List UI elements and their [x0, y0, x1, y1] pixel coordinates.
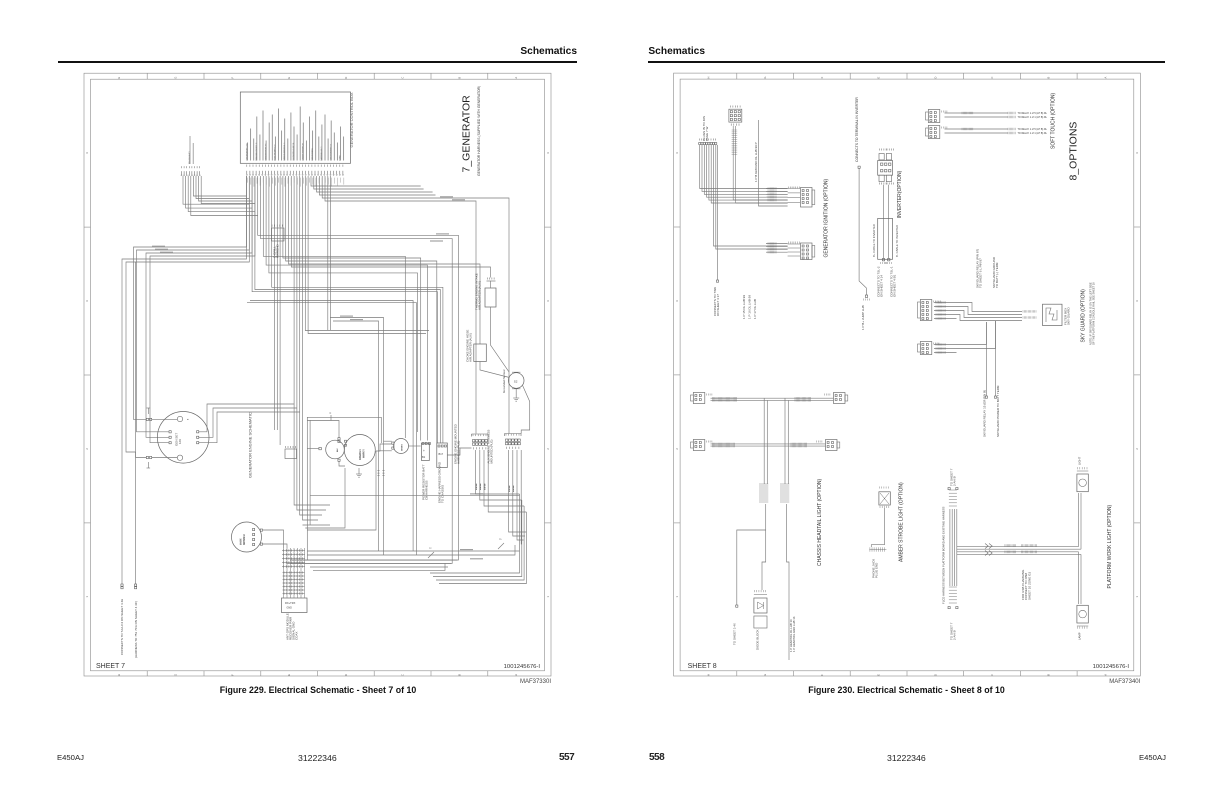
wire	[126, 176, 249, 452]
wire	[137, 176, 250, 432]
choke motor M2	[392, 439, 409, 454]
wire	[957, 551, 1079, 553]
battery cable block	[872, 218, 899, 259]
wire	[447, 448, 471, 455]
wire	[711, 397, 834, 399]
wire	[330, 176, 332, 330]
svg-text:4: 4	[1135, 152, 1139, 154]
wire	[702, 145, 788, 191]
wire	[309, 420, 311, 525]
wire	[263, 544, 288, 548]
wire	[934, 314, 957, 316]
wire	[287, 562, 451, 564]
wire	[289, 176, 481, 344]
svg-text:CHASSIS HEADTAIL LIGHT (OPTION: CHASSIS HEADTAIL LIGHT (OPTION)	[817, 479, 823, 566]
wire	[308, 176, 426, 334]
svg-text:B17: B17	[439, 452, 444, 456]
svg-text:H: H	[707, 674, 711, 676]
svg-text:TO SHEET 6 L PIN 87: TO SHEET 6 L PIN 87	[978, 258, 982, 288]
wire	[957, 311, 1023, 318]
connector ladder C9	[282, 549, 305, 595]
hatch	[1007, 116, 1009, 118]
wire	[436, 506, 524, 580]
node C	[330, 412, 332, 421]
wire	[716, 145, 788, 249]
svg-text:SKY GUARD (OPTION): SKY GUARD (OPTION)	[1080, 289, 1086, 343]
wire	[305, 468, 345, 528]
antenna LX100	[232, 522, 263, 552]
platform connector stack top	[948, 488, 958, 507]
wire	[305, 176, 429, 331]
wire	[934, 306, 957, 308]
wire	[934, 352, 957, 354]
svg-text:ON SHEET 4 14: ON SHEET 4 14	[880, 275, 884, 297]
svg-text:1: 1	[188, 418, 190, 420]
wire	[1080, 554, 1082, 604]
receiver box RX	[282, 598, 308, 640]
svg-text:ON SHEET 4 17: ON SHEET 4 17	[716, 294, 720, 316]
wire	[307, 421, 340, 443]
relay K2	[437, 443, 448, 503]
wire	[274, 176, 276, 430]
wire	[957, 553, 1081, 555]
svg-text:Grounded Sensor: Grounded Sensor	[502, 369, 506, 393]
wire	[134, 176, 247, 419]
wire	[957, 322, 987, 345]
connector P40 row (plugs in to 40S)	[699, 116, 717, 145]
wire	[711, 445, 826, 447]
svg-text:DIODE BLOCK: DIODE BLOCK	[756, 629, 760, 650]
platform connector stack bottom	[948, 587, 958, 609]
wire	[704, 145, 787, 194]
wire	[250, 301, 413, 552]
work lamp bottom	[1077, 605, 1088, 640]
wire	[488, 450, 526, 512]
svg-text:GENERATOR HARNESS (SUPPLIED WI: GENERATOR HARNESS (SUPPLIED WITH GENERAT…	[477, 86, 481, 176]
svg-text:PLUGS IN TO: PLUGS IN TO	[189, 151, 191, 164]
svg-text:C: C	[990, 674, 994, 676]
svg-text:ON SHEET 4 B1: ON SHEET 4 B1	[893, 274, 897, 297]
wire	[290, 548, 292, 598]
label to sheet 7 bottom	[950, 622, 957, 640]
label usb charging	[1021, 569, 1031, 600]
wire down to batt	[994, 321, 1000, 437]
svg-text:MANUAL CHOKE S: MANUAL CHOKE S	[255, 142, 258, 160]
svg-text:G: G	[174, 77, 178, 79]
svg-text:1 P 15 DL LHB 99: 1 P 15 DL LHB 99	[742, 295, 746, 319]
svg-text:RX+TRX: RX+TRX	[285, 601, 296, 605]
svg-text:CONNECTS TO TERMINAL IN INVERT: CONNECTS TO TERMINAL IN INVERTER	[855, 97, 859, 162]
wire	[199, 176, 253, 201]
hatch cluster	[1022, 310, 1024, 312]
wire	[934, 344, 957, 346]
wire	[954, 509, 956, 586]
generator control box U1	[240, 92, 354, 163]
wire	[199, 412, 300, 443]
head lamp connector row 1 right	[825, 393, 848, 404]
svg-text:AMBER STROBE LIGHT (OPTION): AMBER STROBE LIGHT (OPTION)	[899, 482, 905, 562]
svg-text:D: D	[933, 77, 937, 79]
wire	[263, 530, 284, 548]
wire	[766, 400, 768, 484]
wire to sheet 4	[120, 460, 124, 655]
wire	[325, 176, 476, 434]
inverter connector X3	[878, 149, 894, 185]
wire	[201, 176, 255, 204]
sky guard connector B2	[918, 342, 939, 355]
svg-text:C: C	[330, 412, 332, 415]
svg-text:SENDER FUEL PU: SENDER FUEL PU	[265, 143, 267, 161]
wire	[934, 302, 957, 304]
wire	[297, 548, 299, 598]
wire	[310, 494, 520, 496]
svg-text:H: H	[117, 77, 121, 79]
wire	[300, 176, 322, 515]
wire	[951, 509, 953, 586]
connector X2 grid box	[729, 106, 742, 126]
wire	[513, 450, 525, 536]
wire	[283, 548, 285, 598]
svg-text:TO BATT (-) TERM: TO BATT (-) TERM	[995, 262, 999, 288]
wire	[293, 548, 295, 598]
svg-text:B: B	[1047, 76, 1051, 78]
splice diamonds	[985, 544, 992, 556]
wire	[509, 450, 527, 532]
svg-text:G: G	[763, 77, 767, 79]
wire	[297, 176, 326, 510]
diode box	[754, 590, 767, 650]
wire	[787, 504, 789, 660]
wire	[711, 443, 826, 445]
wire connects to terminal in inverter	[855, 97, 869, 330]
wire	[956, 509, 958, 586]
svg-text:GEN RUNNING SI: GEN RUNNING SI	[330, 143, 332, 160]
wire number labels under pin row	[248, 178, 344, 187]
svg-text:8_OPTIONS: 8_OPTIONS	[1068, 122, 1080, 181]
wire	[957, 321, 996, 349]
svg-text:1: 1	[1135, 596, 1139, 598]
svg-text:4: 4	[85, 152, 89, 154]
wire	[307, 550, 520, 552]
svg-text:G: G	[763, 674, 767, 676]
wire	[193, 176, 246, 196]
wire	[272, 176, 443, 443]
svg-text:PAGE 7 W: PAGE 7 W	[705, 127, 709, 141]
connector to sheet 4 (2)	[886, 259, 897, 298]
wire	[327, 176, 329, 330]
svg-text:4: 4	[675, 152, 679, 154]
headlight connector A2	[766, 242, 815, 260]
filter box sky guard	[1043, 304, 1071, 325]
svg-text:GENERATOR IGNITION (OPTION): GENERATOR IGNITION (OPTION)	[824, 178, 830, 257]
svg-text:COAX: COAX	[295, 631, 299, 640]
svg-text:SKYGUARD POWER TO BATT TERM: SKYGUARD POWER TO BATT TERM	[996, 385, 1000, 437]
soft touch connector S1	[926, 110, 947, 123]
wire	[186, 176, 253, 208]
svg-text:CB HARNESS: CB HARNESS	[425, 480, 429, 500]
wire	[196, 176, 249, 199]
svg-text:B- CABLE TO INVERTER: B- CABLE TO INVERTER	[895, 225, 899, 257]
svg-text:C: C	[401, 674, 405, 676]
svg-text:LAMP: LAMP	[1078, 632, 1082, 640]
svg-text:2-4 16: 2-4 16	[480, 483, 482, 490]
wire	[957, 303, 1023, 312]
svg-text:3: 3	[85, 300, 89, 302]
svg-text:12V: 12V	[178, 439, 182, 444]
terminal strip TB1	[454, 423, 489, 464]
svg-text:1-4 16: 1-4 16	[476, 483, 478, 490]
wire	[338, 459, 345, 466]
svg-text:BATTERY CHG: BATTERY CHG	[320, 146, 323, 160]
wire	[247, 303, 417, 555]
svg-text:1: 1	[85, 596, 89, 598]
wire	[957, 546, 1079, 548]
wire	[314, 176, 424, 189]
svg-text:(HARNESS TO 751 7CA ON SHEET: (HARNESS TO 751 7CA ON SHEET 4 4C)	[134, 601, 138, 658]
svg-text:7_GENERATOR: 7_GENERATOR	[461, 95, 473, 173]
wire	[291, 176, 490, 278]
wire	[433, 500, 522, 577]
generator G1	[146, 408, 209, 468]
svg-text:FIELD FLASH: FIELD FLASH	[311, 147, 314, 160]
svg-text:75: 75	[499, 539, 502, 541]
wire	[376, 444, 392, 451]
svg-text:TO RELAY 1 of 1 (LH B) DL: TO RELAY 1 of 1 (LH B) DL	[1018, 116, 1048, 119]
svg-text:GENERATOR ENGINE SCHEMATIC: GENERATOR ENGINE SCHEMATIC	[248, 412, 253, 478]
svg-text:D: D	[933, 674, 937, 676]
svg-text:B: B	[457, 77, 461, 79]
svg-text:GENERATOR CONTROL BOX: GENERATOR CONTROL BOX	[349, 92, 354, 147]
svg-text:LIGHT: LIGHT	[1078, 456, 1082, 465]
wire B+ cable	[882, 185, 884, 259]
svg-text:B+ CABLE TO INVERTER: B+ CABLE TO INVERTER	[872, 224, 876, 257]
wire	[255, 176, 440, 443]
svg-text:PLUG END: PLUG END	[875, 562, 879, 578]
svg-text:PWRGND: PWRGND	[276, 244, 280, 258]
terminal wire labels	[476, 483, 515, 492]
svg-text:2-AH B: 2-AH B	[953, 476, 957, 486]
wire	[333, 321, 379, 551]
wire to sheet 3	[733, 530, 766, 645]
wire	[136, 262, 147, 458]
wire	[269, 176, 418, 432]
wire	[763, 398, 765, 484]
svg-text:D: D	[344, 77, 348, 79]
wire with label (1P B GROUND)	[754, 120, 758, 183]
wire	[252, 176, 437, 443]
svg-text:ANTENNA: ANTENNA	[243, 534, 246, 545]
wire	[191, 176, 258, 216]
svg-text:2: 2	[675, 448, 679, 450]
svg-text:3: 3	[546, 300, 550, 302]
wire	[311, 176, 421, 186]
svg-text:TO RELAY 1 of 1 (LH B) DL: TO RELAY 1 of 1 (LH B) DL	[1018, 132, 1048, 135]
wire	[784, 398, 786, 484]
wire	[521, 386, 530, 434]
svg-text:SOFT TOUCH (OPTION): SOFT TOUCH (OPTION)	[1051, 93, 1057, 149]
svg-text:INVERTER(OPTION): INVERTER(OPTION)	[897, 170, 903, 218]
svg-text:GND: GND	[287, 607, 293, 610]
hatch	[1007, 128, 1009, 130]
svg-text:A: A	[1103, 674, 1107, 676]
wire	[307, 545, 515, 555]
svg-text:SPEED SENSOR G: SPEED SENSOR G	[284, 142, 286, 160]
wire	[491, 307, 510, 372]
wire	[945, 116, 1009, 118]
wire labels	[152, 197, 483, 559]
svg-text:C: C	[401, 77, 405, 79]
relay K1	[422, 443, 431, 501]
wire	[949, 509, 951, 586]
starter motor M1	[326, 435, 376, 466]
wire	[294, 176, 330, 505]
wire	[945, 132, 1009, 134]
svg-text:TO RELAY 1 of 5 (LH B) DL: TO RELAY 1 of 5 (LH B) DL	[1018, 128, 1048, 131]
splice hatch cluster	[759, 484, 789, 502]
wire	[736, 202, 788, 204]
wire	[787, 400, 789, 484]
wire	[934, 310, 957, 312]
wire	[409, 445, 421, 447]
wire	[300, 548, 302, 598]
svg-text:D: D	[344, 674, 348, 676]
wire	[733, 199, 787, 201]
wire	[307, 451, 376, 530]
wire	[330, 318, 384, 556]
tail lamp connector row 2 right	[817, 440, 840, 451]
wire	[122, 176, 247, 460]
engine schematic enclosure	[307, 417, 381, 560]
hatch	[1007, 132, 1009, 134]
wire	[517, 450, 524, 540]
svg-text:GENERATOR GND: GENERATOR GND	[246, 142, 249, 160]
hatch cluster	[1004, 544, 1006, 547]
svg-text:OF THE PLATFORM CONSOLE RAIL S: OF THE PLATFORM CONSOLE RAIL SEE SHEET 1…	[1092, 282, 1096, 345]
wire	[759, 183, 788, 206]
inline connector marks	[377, 471, 384, 476]
thermo sender box	[475, 273, 497, 310]
svg-text:E: E	[287, 674, 291, 676]
svg-text:E: E	[877, 674, 881, 676]
wire	[430, 494, 520, 573]
svg-text:SKY GUARD: SKY GUARD	[1067, 307, 1071, 325]
svg-text:FLCD HARNESS BETWEEN PLATFORM: FLCD HARNESS BETWEEN PLATFORM BOARD AND …	[941, 506, 945, 604]
wire	[258, 176, 459, 560]
wire	[480, 450, 522, 500]
svg-text:1 P HEADTAIL GND LHB 16: 1 P HEADTAIL GND LHB 16	[792, 616, 796, 652]
hatch	[1007, 112, 1009, 114]
wire name hatches	[962, 112, 973, 130]
wire	[317, 176, 433, 192]
wire	[183, 176, 249, 204]
svg-text:3-4 16: 3-4 16	[484, 483, 486, 490]
svg-text:2: 2	[85, 448, 89, 450]
wire	[188, 176, 255, 212]
strobe plug hatch	[869, 547, 886, 578]
svg-text:+: +	[423, 449, 425, 453]
wire long vertical to sheet 4	[713, 145, 720, 316]
wire	[379, 450, 392, 452]
ground under starter motor	[356, 468, 362, 477]
connector J1 pin row under control box	[246, 165, 343, 176]
hatch cluster	[1021, 544, 1023, 547]
svg-text:1: 1	[546, 596, 550, 598]
wire	[283, 176, 421, 441]
connector P2 (plugs in to 40 E page 9118)	[181, 136, 200, 176]
svg-text:1-6 16: 1-6 16	[509, 485, 511, 492]
svg-text:CRANK TERMINAT: CRANK TERMINAT	[302, 142, 305, 160]
svg-text:B13: B13	[337, 448, 339, 452]
wire	[700, 145, 788, 189]
wire	[945, 112, 1009, 114]
svg-text:CONNECTS TO 7AA-C4 ON SHEET 4: CONNECTS TO 7AA-C4 ON SHEET 4 4H	[120, 599, 124, 655]
svg-text:2-AH B: 2-AH B	[953, 630, 957, 640]
svg-text:2: 2	[546, 448, 550, 450]
wire	[957, 548, 1081, 550]
svg-text:B: B	[457, 674, 461, 676]
soft touch labels	[1018, 112, 1048, 135]
choke air adapter box	[466, 330, 487, 362]
wire	[1078, 493, 1080, 547]
wire	[711, 145, 787, 203]
svg-text:H: H	[707, 77, 711, 79]
wire	[439, 512, 526, 584]
svg-text:1 P 16 DL LHB 99: 1 P 16 DL LHB 99	[748, 295, 752, 319]
wire	[520, 450, 523, 544]
svg-text:1 P 17 DL LHB: 1 P 17 DL LHB	[753, 299, 757, 319]
svg-text:CHOKE: CHOKE	[402, 443, 404, 451]
svg-text:F: F	[230, 674, 234, 676]
svg-text:AIR ADAPTER (AUX): AIR ADAPTER (AUX)	[469, 333, 473, 362]
svg-text:2: 2	[1135, 448, 1139, 450]
svg-text:S2: S2	[514, 380, 518, 384]
svg-text:1 P B+ JUMP LHB: 1 P B+ JUMP LHB	[861, 305, 865, 330]
wire B- cable	[888, 185, 890, 259]
svg-text:FUEL PUMP OUT: FUEL PUMP OUT	[275, 144, 277, 161]
inline connector C5	[285, 446, 297, 459]
wire	[934, 348, 957, 350]
wire	[276, 176, 278, 430]
wire	[480, 362, 510, 378]
wire	[266, 176, 427, 441]
wire	[290, 559, 457, 561]
svg-text:SKYGUARD RELAY 15 (ER PIN B): SKYGUARD RELAY 15 (ER PIN B)	[983, 390, 987, 437]
svg-text:B: B	[1047, 674, 1051, 676]
svg-text:PLATFORM WORK LIGHT (OPTION): PLATFORM WORK LIGHT (OPTION)	[1107, 504, 1113, 588]
wire	[150, 176, 255, 443]
terminal strip TB2	[487, 430, 522, 464]
svg-text:2-6 16: 2-6 16	[513, 485, 515, 492]
svg-text:MOUNTED (PLG): MOUNTED (PLG)	[490, 439, 494, 463]
svg-text:LOAD: LOAD	[339, 154, 342, 160]
wire	[476, 450, 520, 494]
wire	[263, 176, 405, 438]
jog segment	[498, 543, 504, 549]
wire	[303, 176, 319, 520]
jog segment	[428, 552, 434, 558]
wire	[146, 176, 252, 437]
wire	[286, 548, 288, 598]
svg-text:F: F	[820, 674, 824, 676]
wire	[199, 404, 294, 432]
inline connector C-GRILL	[272, 225, 285, 259]
wire	[199, 408, 297, 437]
sky guard connector B1	[918, 300, 941, 321]
svg-text:H: H	[117, 674, 121, 676]
wire	[871, 508, 884, 547]
svg-text:MOTOR: MOTOR	[363, 449, 366, 458]
svg-text:A: A	[514, 674, 518, 676]
